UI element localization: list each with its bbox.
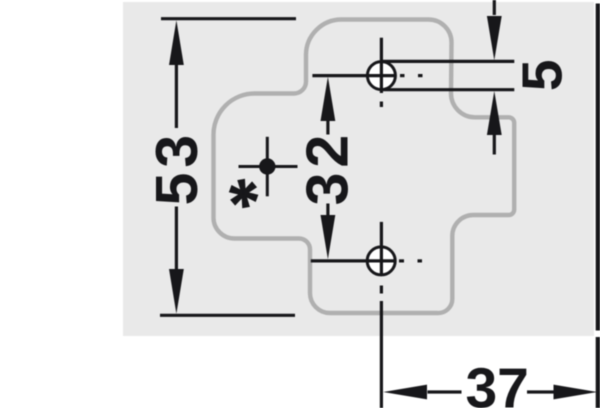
svg-text:32: 32 [295, 130, 361, 206]
svg-text:5: 5 [510, 59, 574, 91]
svg-text:37: 37 [465, 357, 528, 408]
svg-text:53: 53 [144, 130, 210, 206]
